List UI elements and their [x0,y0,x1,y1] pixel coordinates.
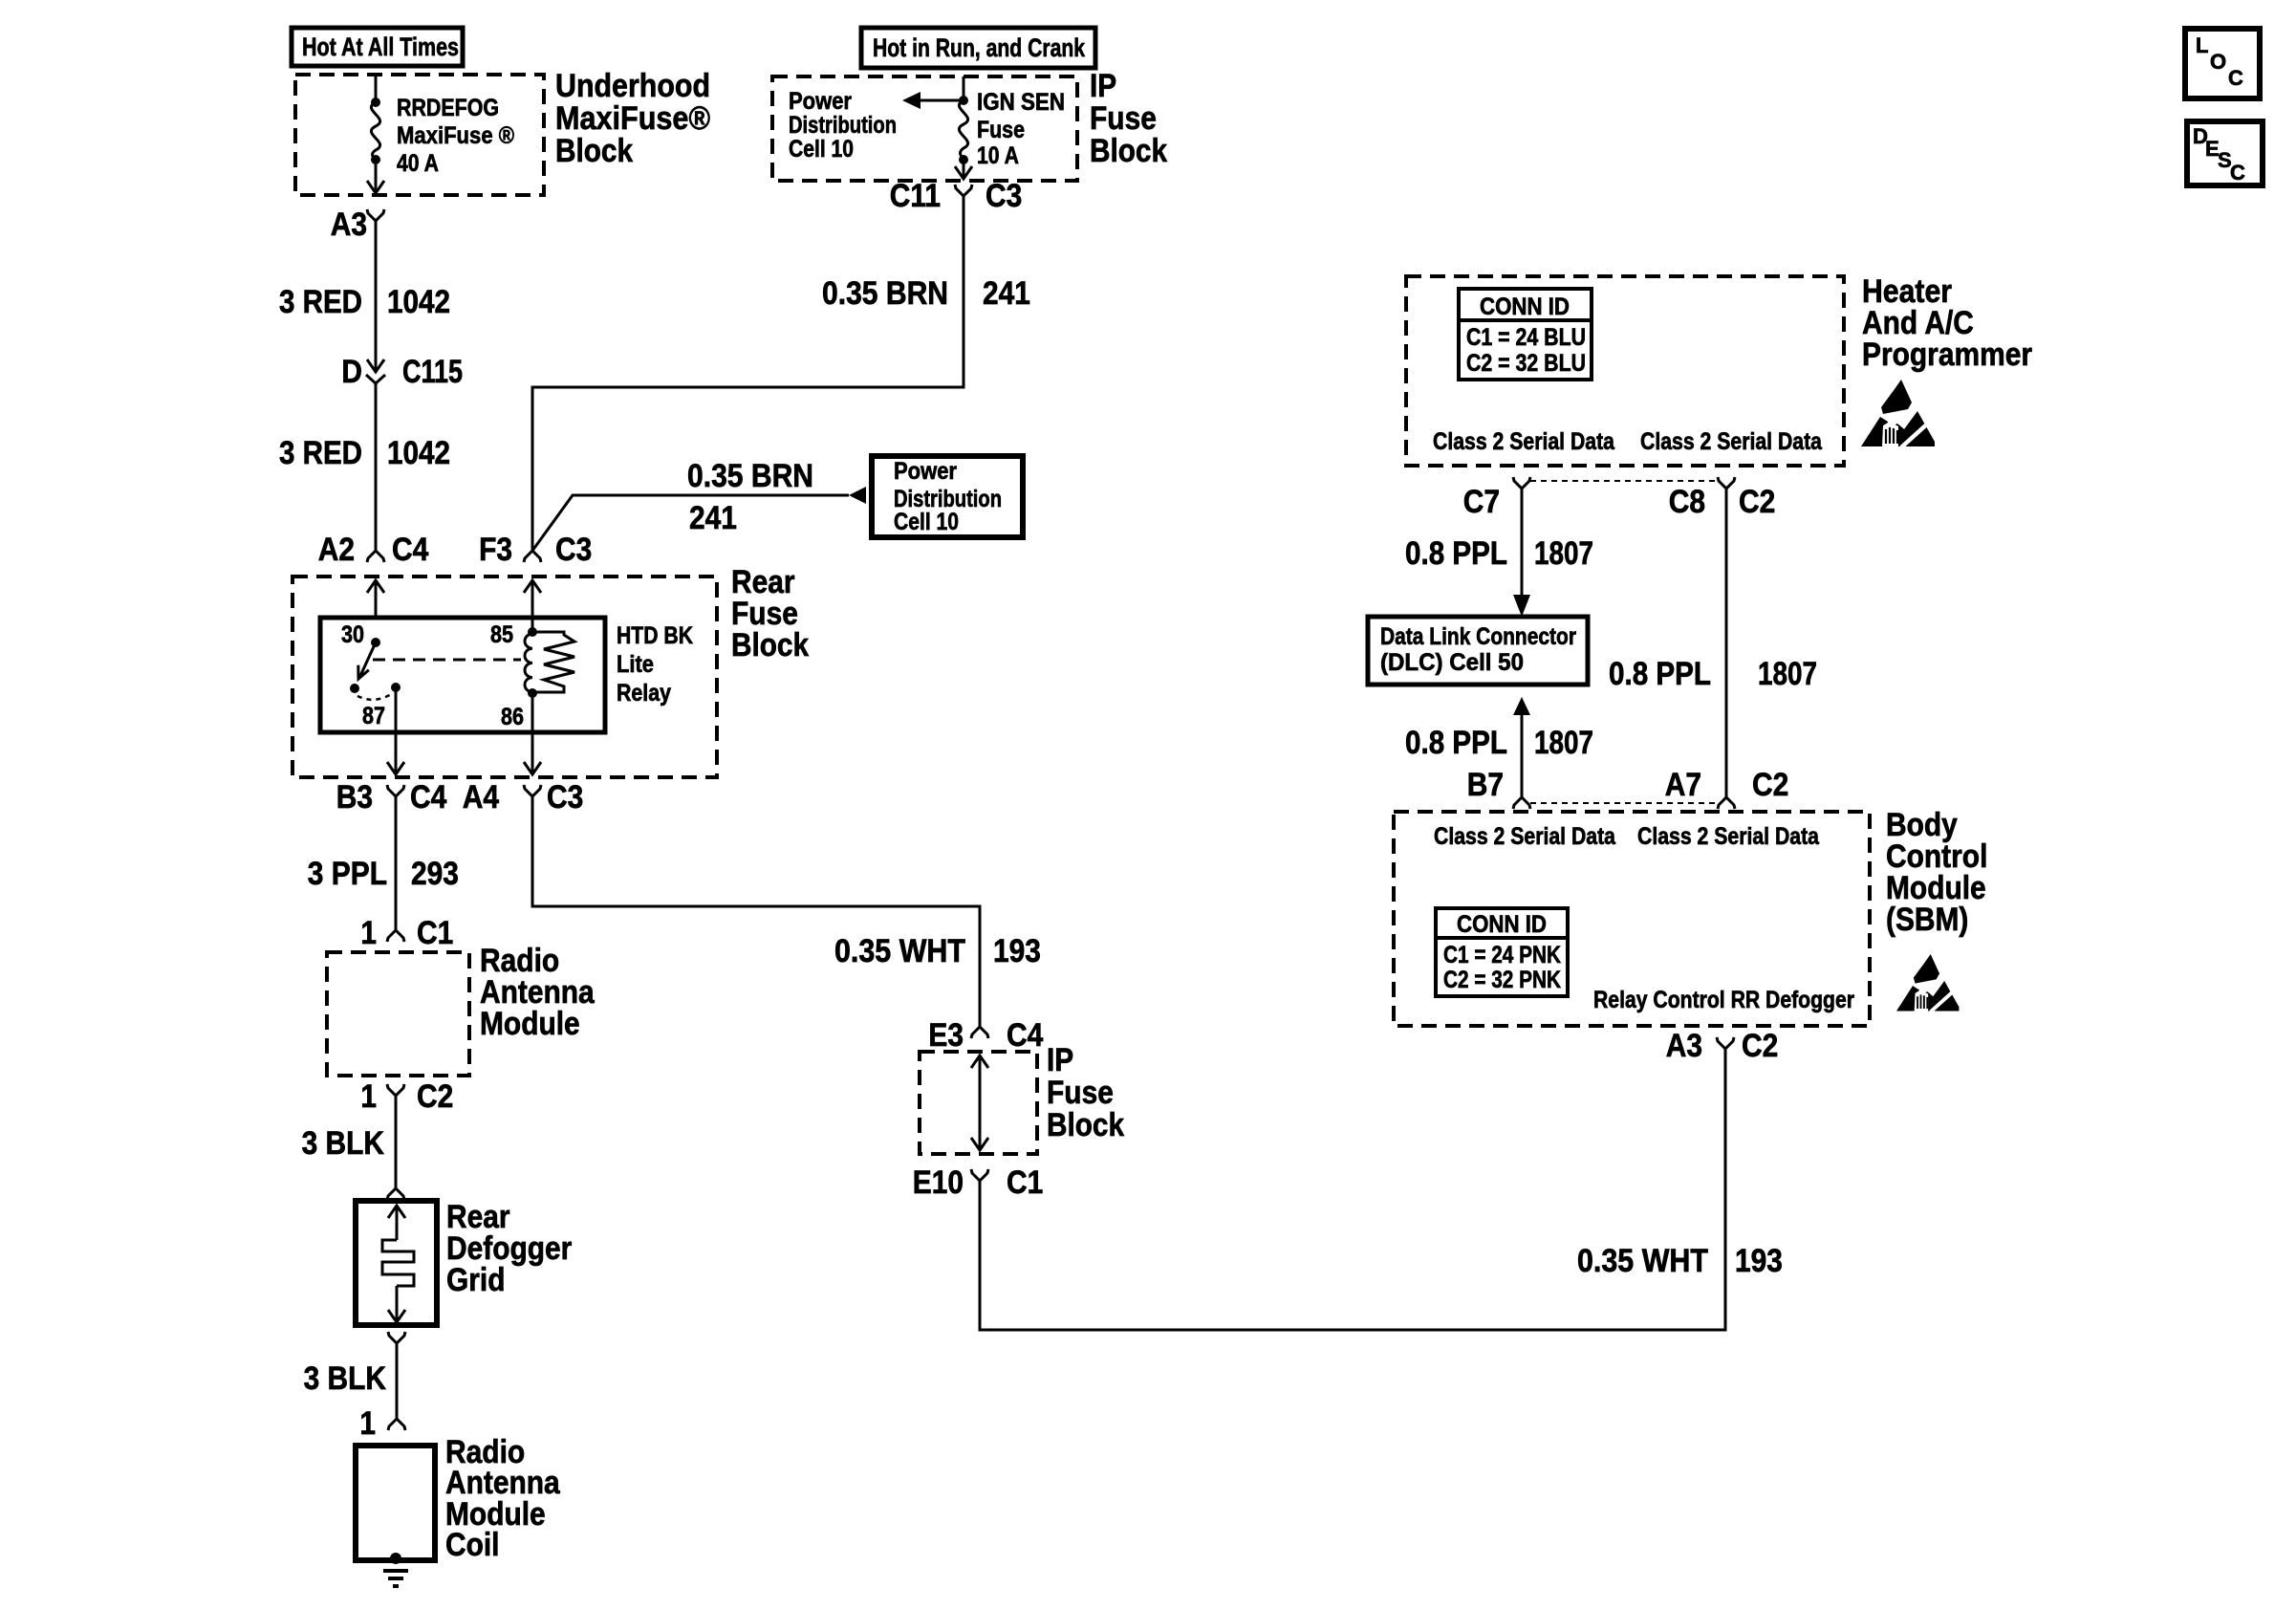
labels: Class 2 Serial Data (heater) [1433,428,1823,455]
connector E3 / C4 (fork) [928,1017,1043,1054]
svg-text:B7: B7 [1467,767,1504,803]
esd warning symbol (heater) [1861,380,1935,447]
svg-text:85: 85 [490,621,513,648]
svg-text:C4: C4 [410,779,446,816]
svg-text:Data Link Connector: Data Link Connector [1380,623,1576,650]
svg-text:C1: C1 [1007,1164,1043,1201]
svg-text:Fuse: Fuse [1090,100,1157,137]
wire 3 RED 1042 (C115 to A2) [279,383,450,551]
rear fuse block (dashed box) [292,577,717,777]
svg-text:C2: C2 [417,1078,453,1115]
relay 85 dot [528,618,537,637]
power distribution cell 10 box [872,456,1023,537]
svg-text:C4: C4 [1007,1017,1043,1054]
connector C7 (Y) [1463,477,1530,520]
svg-text:3 RED: 3 RED [279,284,362,320]
svg-text:C3: C3 [555,532,592,568]
conn id table (bcm) [1436,908,1568,996]
connector B3 / C4 (Y) [336,779,447,816]
wire 86 down with arrow at block edge [524,693,541,774]
svg-text:1807: 1807 [1534,725,1593,761]
relay 87 dot [391,683,401,692]
relay 86 dot [528,688,537,698]
svg-text:C1: C1 [417,915,453,951]
svg-text:CONN ID: CONN ID [1457,911,1547,938]
svg-text:0.8 PPL: 0.8 PPL [1405,535,1507,572]
svg-text:C4: C4 [392,532,428,568]
svg-text:C115: C115 [402,354,463,390]
fuse RRDEFOG MaxiFuse 40 A (squiggle) [371,102,379,160]
ip fuse block mini (dashed box) [920,1052,1037,1154]
header box: Hot in Run, and Crank [861,28,1095,68]
svg-text:0.35 BRN: 0.35 BRN [687,458,813,494]
svg-text:O: O [2210,50,2226,74]
wire 3 BLK (lower) [304,1350,397,1419]
svg-text:0.35 WHT: 0.35 WHT [1577,1243,1708,1279]
label: Radio Antenna Module Coil [445,1434,561,1563]
junction dot [371,155,380,164]
svg-text:Class 2 Serial Data: Class 2 Serial Data [1637,823,1820,850]
label: IGN SEN Fuse 10 A [977,89,1065,169]
connector A2 / C4 (fork) [318,532,429,568]
connector B7 (fork) [1467,767,1530,809]
labels: Class 2 Serial Data (bcm) [1434,823,1820,850]
svg-text:C2 = 32 PNK: C2 = 32 PNK [1443,967,1561,993]
svg-text:C11: C11 [890,178,941,214]
svg-text:10 A: 10 A [977,142,1019,169]
svg-text:Coil: Coil [445,1527,500,1563]
svg-text:Power: Power [789,88,852,115]
svg-text:C7: C7 [1463,484,1500,520]
svg-text:Relay: Relay [617,680,671,707]
svg-text:Class 2 Serial Data: Class 2 Serial Data [1433,428,1615,455]
wire into fuse [963,76,965,100]
svg-text:Class 2 Serial Data: Class 2 Serial Data [1640,428,1823,455]
svg-text:241: 241 [689,500,737,536]
radio antenna module (dashed box) [327,952,469,1076]
relay coil resistor (parallel) [532,632,574,692]
label: Underhood MaxiFuse Block [555,68,710,169]
svg-text:Cell 10: Cell 10 [894,509,959,535]
svg-text:193: 193 [1735,1243,1783,1279]
svg-text:Cell 10: Cell 10 [789,136,854,163]
svg-text:C2: C2 [1742,1028,1778,1064]
svg-text:1807: 1807 [1758,656,1817,692]
svg-text:C: C [2230,161,2245,185]
radio antenna module coil box [356,1446,435,1560]
svg-text:Block: Block [1047,1107,1124,1143]
svg-text:RRDEFOG: RRDEFOG [397,95,499,121]
arrow into block at F3 [524,580,541,618]
svg-text:Grid: Grid [446,1262,506,1298]
svg-text:A3: A3 [331,207,367,243]
svg-text:3 RED: 3 RED [279,435,362,471]
connector A3 (Y) [331,207,384,243]
svg-text:D: D [341,354,362,390]
svg-text:Class 2 Serial Data: Class 2 Serial Data [1434,823,1616,850]
esd warning symbol (bcm) [1896,954,1959,1012]
svg-text:C3: C3 [547,779,583,816]
relay switch contact dot [350,684,359,693]
svg-text:3 BLK: 3 BLK [302,1125,385,1162]
svg-text:A2: A2 [318,532,355,568]
arrow into block at A2 [367,580,384,618]
arrowhead (left) [849,487,866,504]
label: Body Control Module (SBM) [1886,807,1987,938]
svg-text:C1 = 24 BLU: C1 = 24 BLU [1466,324,1586,351]
svg-text:F3: F3 [479,532,512,568]
connector C11 / C3 (Y) [890,178,1023,214]
svg-text:L: L [2196,33,2208,57]
junction dot [959,155,968,164]
ground symbol [383,1571,408,1586]
svg-text:CONN ID: CONN ID [1480,294,1570,320]
label: IP Fuse Block [1090,68,1167,169]
svg-text:IP: IP [1047,1042,1073,1078]
relay switch arm with arrow [358,642,376,679]
svg-text:HTD BK: HTD BK [617,622,693,649]
svg-text:(DLC) Cell 50: (DLC) Cell 50 [1380,649,1524,676]
svg-text:Hot in Run, and Crank: Hot in Run, and Crank [873,33,1086,62]
svg-text:(SBM): (SBM) [1886,902,1968,938]
svg-text:1: 1 [359,1405,376,1442]
connector E10 / C1 (Y) [913,1164,1044,1201]
in-line connector C115 pin D (arrow + chevron) [341,354,463,390]
svg-text:Distribution: Distribution [789,112,897,139]
connector 1 / C2 (Y) [360,1078,453,1115]
underhood maxifuse block (dashed box) [295,75,544,195]
svg-text:Module: Module [480,1006,580,1042]
svg-text:C3: C3 [986,178,1022,214]
label: Power Distribution Cell 10 (in block) [789,88,897,163]
data link connector box [1368,617,1588,685]
svg-text:IP: IP [1090,68,1116,104]
relay actuation line (dashed) [373,659,521,662]
connector A4 / C3 (Y) [463,779,584,816]
connector 1 (fork) [359,1405,405,1442]
wire: feed into fuse [375,76,378,102]
connector face line (bcm, small dashes) [1530,802,1718,804]
label: Radio Antenna Module [480,943,596,1042]
svg-text:293: 293 [411,856,459,892]
wire A4 to E3 (0.35 WHT 193) [532,811,1041,1027]
svg-text:0.35 WHT: 0.35 WHT [834,933,965,969]
wire 0.35 BRN 241 to power distribution [532,458,849,551]
svg-text:Hot At All Times: Hot At All Times [302,33,459,61]
svg-text:IGN SEN: IGN SEN [977,89,1065,116]
conn id table (heater) [1459,289,1592,380]
svg-text:A4: A4 [463,779,499,816]
wire 3 RED 1042 (A3 to C115) [279,232,450,372]
svg-text:MaxiFuse®: MaxiFuse® [555,100,710,137]
svg-text:A7: A7 [1665,767,1701,803]
svg-text:Power: Power [894,458,957,485]
arrow to power distribution (left) [902,92,964,109]
label: RRDEFOG MaxiFuse 40 A [397,95,515,177]
relay box (HTD BK Lite Relay) [320,618,605,732]
internal double-ended arrow [971,1055,988,1150]
label: Heater And A/C Programmer [1862,273,2032,373]
svg-text:0.8 PPL: 0.8 PPL [1405,725,1507,761]
junction dot [371,98,380,107]
connector A3 / C2 (Y) [1666,1028,1779,1064]
svg-text:MaxiFuse ®: MaxiFuse ® [397,122,515,149]
svg-text:A3: A3 [1666,1028,1702,1064]
svg-text:Relay Control RR Defogger: Relay Control RR Defogger [1593,987,1854,1013]
svg-text:241: 241 [983,275,1030,312]
connector 1 / C1 (fork) [360,915,453,951]
svg-text:C8: C8 [1669,484,1705,520]
relay travel arc (dashed) [357,693,393,700]
relay coil [525,634,532,692]
wire with down arrow [955,160,972,179]
svg-text:E10: E10 [913,1164,964,1201]
svg-text:193: 193 [993,933,1041,969]
wire with down arrow to block edge [367,160,384,193]
heater and a/c programmer (dashed box) [1406,276,1844,466]
connector F3 / C3 (fork) [479,532,592,568]
connector below grid (Y) [388,1332,405,1350]
defogger grid element [382,1206,414,1322]
svg-text:40 A: 40 A [397,150,439,177]
rear defogger grid box [356,1201,437,1325]
wire 0.8 PPL 1807 (B7 to DLC) [1405,697,1593,797]
wire E10 to BCM A3 (0.35 WHT 193) [980,1049,1783,1330]
wire 0.8 PPL 1807 (C7 to DLC) [1405,489,1593,617]
body control module (dashed box) [1394,812,1870,1026]
svg-text:0.35 BRN: 0.35 BRN [822,275,948,312]
svg-text:Underhood: Underhood [555,68,710,104]
svg-text:Block: Block [555,133,633,169]
ip fuse block (dashed box) [772,76,1077,181]
svg-text:C2: C2 [1739,484,1775,520]
junction dot [959,96,968,105]
svg-text:C2 = 32 BLU: C2 = 32 BLU [1466,350,1586,377]
connector A7 / C2 (fork) [1665,767,1789,809]
wire 3 BLK [302,1096,396,1188]
wire 0.8 PPL 1807 (C8 to A7) [1609,489,1817,797]
svg-text:0.8 PPL: 0.8 PPL [1609,656,1711,692]
svg-text:C2: C2 [1752,767,1788,803]
connector face line (heater, small dashes) [1530,480,1718,482]
svg-text:1042: 1042 [387,435,450,471]
wire 87 down with arrow at block edge [387,687,404,774]
svg-text:Fuse: Fuse [977,117,1025,143]
svg-text:3 BLK: 3 BLK [304,1360,387,1397]
svg-text:C: C [2228,66,2243,90]
wire 0.35 BRN 241 (C11 to F3) [532,207,1030,551]
wire 3 PPL 293 [308,811,459,930]
svg-text:1: 1 [360,915,377,951]
connector C8 / C2 (Y) [1669,477,1776,520]
svg-text:Block: Block [1090,133,1167,169]
header box: Hot At All Times [292,28,463,66]
svg-text:E3: E3 [928,1017,964,1054]
fuse IGN SEN 10 A (squiggle) [959,100,967,160]
desc reference box [2187,121,2263,185]
label: Rear Defogger Grid [446,1199,572,1298]
svg-text:Block: Block [731,627,809,664]
label: Rear Fuse Block [731,564,809,664]
svg-text:87: 87 [362,703,385,729]
svg-text:B3: B3 [336,779,373,816]
label: HTD BK Lite Relay [617,622,693,707]
ground junction dot [390,1553,401,1564]
svg-text:1: 1 [360,1078,377,1115]
svg-text:Lite: Lite [617,651,654,678]
svg-text:1807: 1807 [1534,535,1593,572]
svg-text:3 PPL: 3 PPL [308,856,387,892]
svg-text:86: 86 [501,704,524,730]
svg-text:30: 30 [341,621,364,648]
in-line fork above defogger grid [387,1188,404,1200]
svg-text:Programmer: Programmer [1862,337,2032,373]
label: IP Fuse Block (mini) [1047,1042,1124,1143]
loc reference box [2185,29,2260,98]
svg-text:1042: 1042 [387,284,450,320]
relay pin 30 dot [371,638,380,647]
svg-text:Fuse: Fuse [1047,1075,1114,1111]
svg-text:C1 = 24 PNK: C1 = 24 PNK [1443,942,1561,968]
